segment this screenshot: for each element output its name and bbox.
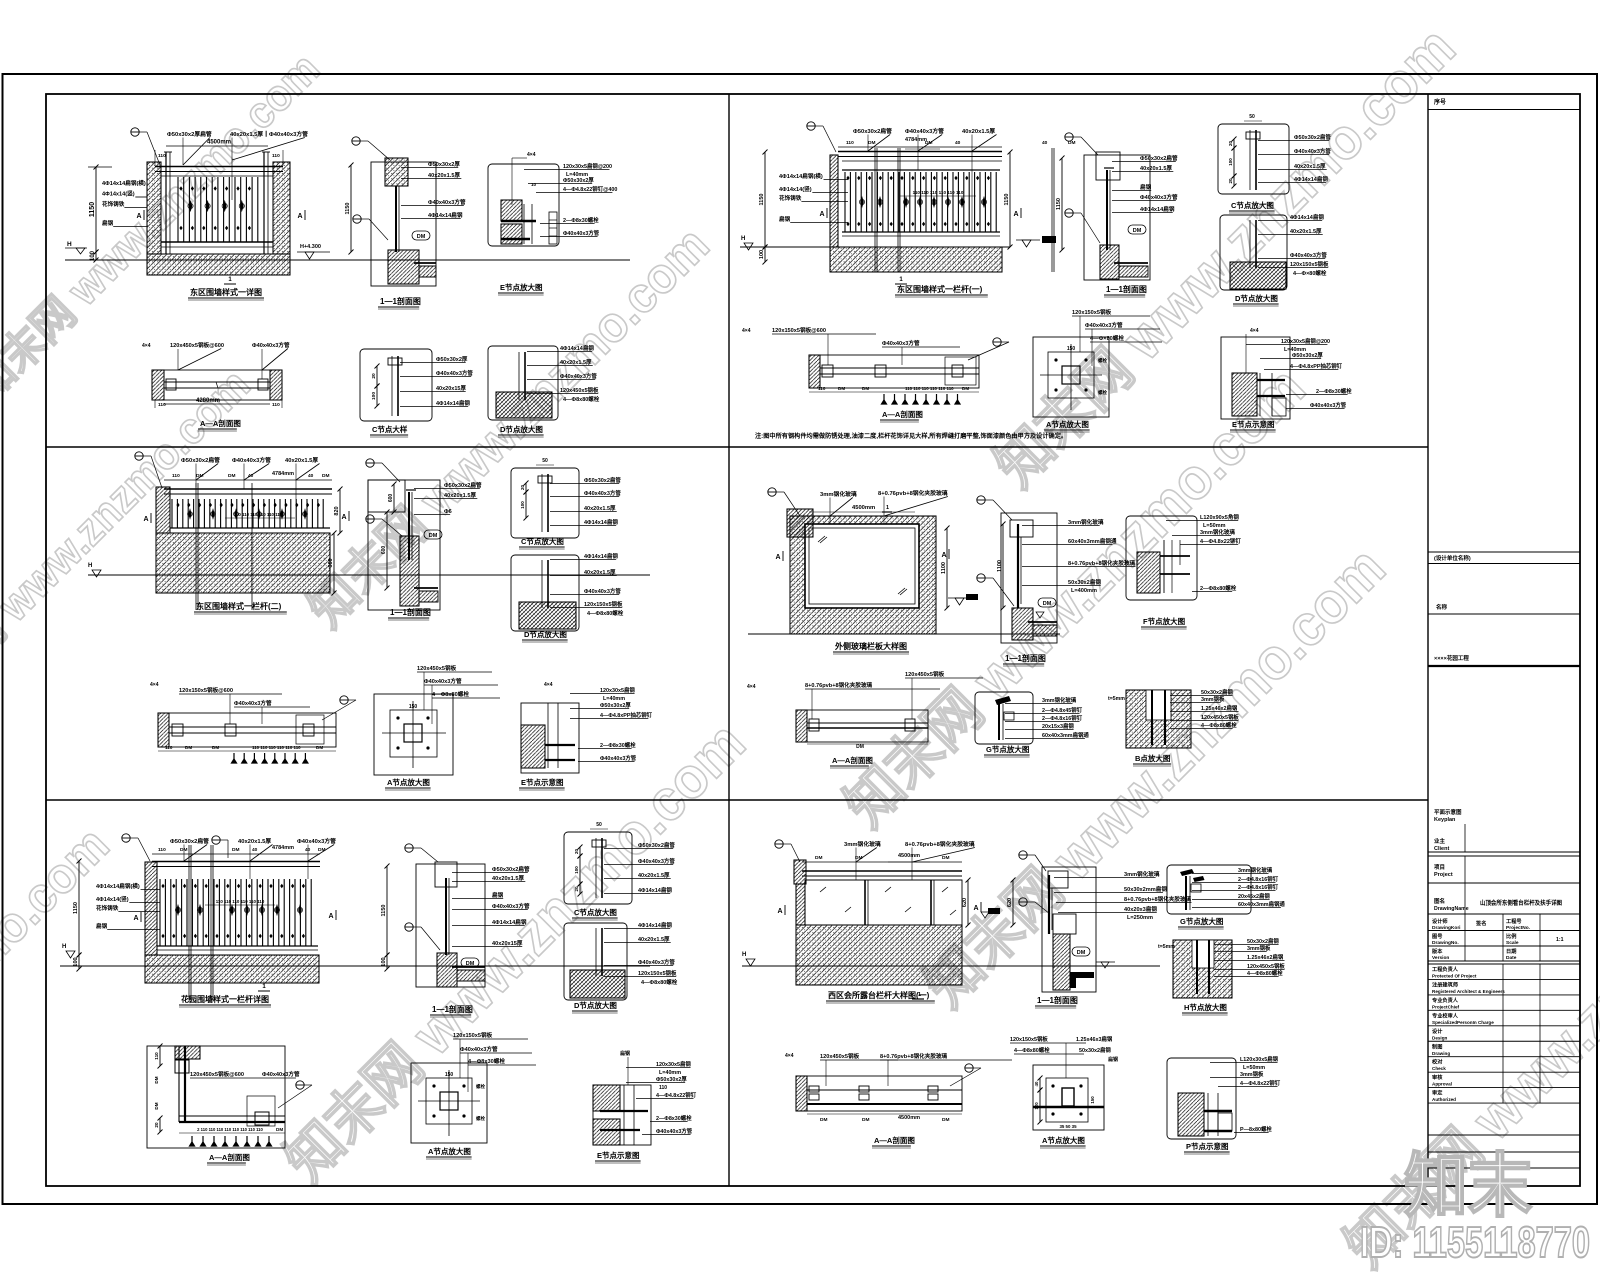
svg-text:100: 100 xyxy=(73,957,79,966)
svg-text:A: A xyxy=(941,552,946,559)
P2 section DM oval xyxy=(1128,225,1146,234)
P6 detail G box xyxy=(1167,865,1251,914)
P4 section top box xyxy=(1010,520,1033,537)
svg-text:120x150x5钢板@600: 120x150x5钢板@600 xyxy=(772,326,826,334)
P1 callout circle xyxy=(131,128,139,136)
P1 plan A-A strip xyxy=(152,370,282,400)
P3 plan hash marks xyxy=(232,753,308,763)
svg-text:60x40x3mm扁钢通: 60x40x3mm扁钢通 xyxy=(1068,537,1117,545)
svg-text:20: 20 xyxy=(371,373,377,379)
svg-text:4Φ14x14扁钢(横): 4Φ14x14扁钢(横) xyxy=(779,172,823,180)
P3 top rail xyxy=(164,488,332,490)
P1 baluster small dots lower xyxy=(179,226,182,230)
P1 section callout mid xyxy=(353,215,361,223)
svg-text:Φ50x30x2厚: Φ50x30x2厚 xyxy=(1292,351,1323,359)
P2 baluster small dots upper xyxy=(846,176,849,180)
svg-text:60x40x3mm扁钢通: 60x40x3mm扁钢通 xyxy=(1238,900,1285,908)
P4 section bottom hatch xyxy=(1012,608,1033,640)
P3 detail C box xyxy=(511,468,579,538)
P5 corner plan vertical bar xyxy=(178,1046,180,1122)
svg-text:3mm钢化玻璃: 3mm钢化玻璃 xyxy=(820,490,857,498)
P5 section 1-1 body xyxy=(416,864,485,987)
P5 detail D box xyxy=(564,923,627,1000)
P5 corner plan dashed box xyxy=(247,1096,275,1126)
svg-text:Φ40x40x3方管: Φ40x40x3方管 xyxy=(252,341,290,349)
P1 balusters xyxy=(178,177,258,242)
svg-text:120x450x5钢板: 120x450x5钢板 xyxy=(820,1052,860,1060)
P5 detail C box xyxy=(564,832,632,904)
P5 section top box xyxy=(435,862,457,887)
svg-text:1.25x46x3扁钢: 1.25x46x3扁钢 xyxy=(1076,1035,1113,1043)
P5 corner plan left dims xyxy=(159,1046,161,1066)
P3 detail C dim 50 xyxy=(536,464,554,466)
svg-text:A: A xyxy=(328,913,333,920)
P2 balusters xyxy=(845,172,996,232)
svg-text:40x20x1.5厚: 40x20x1.5厚 xyxy=(560,358,592,366)
svg-text:110: 110 xyxy=(846,140,854,146)
P3 detail C post xyxy=(541,474,543,532)
svg-text:××××花园工程: ××××花园工程 xyxy=(1434,654,1469,662)
svg-text:120x150x5钢板: 120x150x5钢板 xyxy=(1010,1035,1048,1043)
svg-text:扁钢: 扁钢 xyxy=(492,891,504,899)
svg-text:Client: Client xyxy=(1434,846,1449,852)
P4 ground line xyxy=(748,633,1060,635)
svg-text:A—A剖面图: A—A剖面图 xyxy=(832,755,873,765)
P3 section 1-1 body xyxy=(368,480,440,610)
svg-text:专业校审人: 专业校审人 xyxy=(1432,1011,1459,1019)
svg-text:C节点放大图: C节点放大图 xyxy=(574,907,617,917)
svg-text:4—Φ8x80螺栓: 4—Φ8x80螺栓 xyxy=(1014,1046,1050,1054)
P6 detail P hatch xyxy=(1178,1093,1204,1136)
svg-text:Φ40x40x3方管: Φ40x40x3方管 xyxy=(1290,251,1327,259)
P3 ground line xyxy=(88,574,650,576)
svg-text:校对: 校对 xyxy=(1432,1058,1443,1066)
svg-text:D节点放大图: D节点放大图 xyxy=(524,629,567,639)
svg-text:4784mm: 4784mm xyxy=(272,471,294,477)
svg-text:50: 50 xyxy=(542,458,548,464)
P2 callout circle xyxy=(807,122,815,130)
svg-text:Φ40x40x3方管: Φ40x40x3方管 xyxy=(563,229,600,237)
svg-text:110: 110 xyxy=(158,153,166,159)
svg-text:Φ40x40x3方管: Φ40x40x3方管 xyxy=(1310,401,1347,409)
svg-text:100: 100 xyxy=(574,866,579,874)
title block approval row 2 xyxy=(1428,994,1580,996)
P6 section top box xyxy=(1048,871,1068,888)
P2 detail C box xyxy=(1218,124,1289,194)
svg-text:A: A xyxy=(973,905,978,912)
svg-text:4—Φ4.8x22铆钉: 4—Φ4.8x22铆钉 xyxy=(656,1091,697,1099)
svg-text:2—Φ8x80螺栓: 2—Φ8x80螺栓 xyxy=(1200,584,1237,592)
svg-text:4Φ14x14扁钢: 4Φ14x14扁钢 xyxy=(436,399,470,407)
P1 railing right post xyxy=(263,152,265,254)
P2 section dim 1150 xyxy=(1061,158,1063,250)
P6 section DM oval xyxy=(1072,947,1090,956)
svg-text:120x150x5钢板: 120x150x5钢板 xyxy=(453,1031,493,1039)
P2 detail D post xyxy=(1249,220,1251,268)
svg-text:工程号: 工程号 xyxy=(1506,917,1522,925)
svg-text:8+0.76pvb+8钢化夹胶玻璃: 8+0.76pvb+8钢化夹胶玻璃 xyxy=(878,489,948,497)
svg-text:50x30x2扁钢: 50x30x2扁钢 xyxy=(1079,1046,1111,1054)
svg-text:A: A xyxy=(136,213,141,220)
svg-text:4—Φ8x30螺栓: 4—Φ8x30螺栓 xyxy=(468,1057,505,1065)
svg-text:620: 620 xyxy=(962,898,968,907)
svg-text:1150: 1150 xyxy=(73,902,79,914)
P5 section cut lines xyxy=(188,845,190,1000)
P5 elevation hatched left column xyxy=(145,862,157,955)
svg-text:扁钢: 扁钢 xyxy=(619,1050,630,1057)
P4 section dim 1100 xyxy=(1002,524,1004,608)
svg-text:120x450x5钢板@600: 120x450x5钢板@600 xyxy=(170,341,224,349)
svg-text:110: 110 xyxy=(659,1085,667,1091)
svg-text:A: A xyxy=(341,514,346,521)
P3 section handrail box xyxy=(368,480,405,512)
P6 glass ticks xyxy=(820,887,826,892)
svg-text:设计师: 设计师 xyxy=(1432,917,1448,925)
P5 callouts xyxy=(122,834,130,842)
P5 detail C dims xyxy=(579,847,581,856)
svg-text:DM: DM xyxy=(1133,228,1142,234)
P6 detail P bars xyxy=(1204,1110,1232,1112)
svg-text:40x20x1.5厚: 40x20x1.5厚 xyxy=(1140,164,1172,172)
svg-text:ID: 1155118770: ID: 1155118770 xyxy=(1360,1218,1590,1267)
title block approval row 4 xyxy=(1428,1025,1580,1027)
svg-text:Φ40x40x3方管: Φ40x40x3方管 xyxy=(436,369,473,377)
svg-text:600: 600 xyxy=(381,546,387,555)
svg-text:审核: 审核 xyxy=(1432,1073,1443,1081)
title block design firm row xyxy=(1428,563,1580,565)
svg-text:600: 600 xyxy=(328,558,334,567)
P5 elevation hatched slab xyxy=(145,955,319,983)
P2 bottom rail xyxy=(842,231,1000,233)
svg-text:Drawing: Drawing xyxy=(1432,1051,1450,1056)
svg-text:A—A剖面图: A—A剖面图 xyxy=(200,418,241,428)
svg-text:DM: DM xyxy=(185,745,192,750)
svg-text:DM: DM xyxy=(429,533,438,539)
svg-text:40x20x1.5厚: 40x20x1.5厚 xyxy=(285,456,318,464)
P6 ground line xyxy=(742,965,1160,967)
svg-text:L=40mm: L=40mm xyxy=(659,1070,681,1076)
svg-text:4Φ14x14扁钢: 4Φ14x14扁钢 xyxy=(638,886,672,894)
P6 hatched wall xyxy=(796,925,962,985)
P3 detail D post xyxy=(541,560,543,608)
P2 plan A-A strip xyxy=(809,355,979,388)
svg-text:50x30x2扁钢: 50x30x2扁钢 xyxy=(1068,578,1101,586)
svg-text:4—Φ4.8x22铆钉: 4—Φ4.8x22铆钉 xyxy=(1240,1079,1281,1087)
P1 detail Cm dims xyxy=(376,366,378,386)
svg-text:DM: DM xyxy=(232,847,239,853)
P6 elevation left jamb xyxy=(796,884,805,925)
svg-text:4Φ14x14扁钢(横): 4Φ14x14扁钢(横) xyxy=(102,179,146,187)
P3 section hatch column xyxy=(400,536,419,606)
P3 section post xyxy=(408,492,410,560)
svg-text:1:1: 1:1 xyxy=(1556,937,1564,943)
title block line above project xyxy=(1428,851,1580,853)
P2 mid rail xyxy=(842,169,1000,171)
title block bottom boxes xyxy=(1428,1134,1580,1136)
svg-text:110 110 110 110 110 110: 110 110 110 110 110 110 xyxy=(913,190,964,195)
svg-text:L120x30x5扁钢: L120x30x5扁钢 xyxy=(1240,1055,1279,1063)
svg-text:40: 40 xyxy=(1042,140,1048,146)
svg-text:B点放大图: B点放大图 xyxy=(1135,753,1171,763)
svg-text:扁钢: 扁钢 xyxy=(96,922,108,930)
P5 section dims xyxy=(386,866,388,955)
svg-text:4Φ14x14扁钢: 4Φ14x14扁钢 xyxy=(638,921,672,929)
svg-text:Φ40x40x3方管: Φ40x40x3方管 xyxy=(600,754,637,762)
svg-text:110: 110 xyxy=(158,847,166,853)
svg-text:4Φ14x14(竖): 4Φ14x14(竖) xyxy=(96,895,129,903)
P5 corner plan big box xyxy=(147,1046,285,1148)
P2 baluster ornaments xyxy=(860,196,864,208)
P2 top dim row xyxy=(838,146,1002,148)
svg-text:620: 620 xyxy=(1007,898,1013,907)
svg-text:C节点大样: C节点大样 xyxy=(372,424,408,434)
P2 detail B plan cross xyxy=(1048,352,1094,398)
svg-text:20: 20 xyxy=(1228,141,1233,147)
svg-text:签名: 签名 xyxy=(1475,919,1486,927)
svg-text:日期: 日期 xyxy=(1506,947,1516,955)
svg-text:L=40mm: L=40mm xyxy=(603,696,625,702)
P4 dim 1100 xyxy=(946,528,948,608)
svg-text:P节点示意图: P节点示意图 xyxy=(1186,1141,1229,1151)
svg-text:A节点放大图: A节点放大图 xyxy=(1042,1135,1085,1145)
svg-text:H节点放大图: H节点放大图 xyxy=(1184,1002,1227,1012)
svg-text:150: 150 xyxy=(1067,346,1076,352)
svg-text:4×4: 4×4 xyxy=(527,152,536,158)
svg-text:40x20x1.5厚: 40x20x1.5厚 xyxy=(638,871,670,879)
svg-text:1—1剖面图: 1—1剖面图 xyxy=(1037,995,1078,1005)
P2 detail E box xyxy=(1221,337,1290,419)
svg-text:F节点放大图: F节点放大图 xyxy=(1143,616,1186,626)
svg-text:2—Φ4.8x16铆钉: 2—Φ4.8x16铆钉 xyxy=(1238,883,1279,891)
P6 glass panels xyxy=(805,880,962,925)
svg-text:DrawingName: DrawingName xyxy=(1434,906,1469,912)
svg-text:DM: DM xyxy=(815,855,822,861)
svg-text:3mm钢板: 3mm钢板 xyxy=(1201,695,1225,703)
svg-text:扁钢: 扁钢 xyxy=(1140,183,1152,191)
P2 detail E hatch wall xyxy=(1232,373,1257,416)
svg-text:Φ40x40x3方管: Φ40x40x3方管 xyxy=(905,127,944,135)
P3 detail E bars xyxy=(545,744,575,746)
svg-text:4×4: 4×4 xyxy=(742,328,751,334)
svg-text:40: 40 xyxy=(955,140,961,146)
svg-text:螺栓: 螺栓 xyxy=(476,1115,485,1122)
svg-text:50x30x2扁钢: 50x30x2扁钢 xyxy=(1201,688,1233,696)
P5 mid-bottom rail xyxy=(157,945,318,947)
svg-text:4—Φ4.8xPP抽芯铆钉: 4—Φ4.8xPP抽芯铆钉 xyxy=(1290,362,1343,370)
P4 detail F box xyxy=(1126,516,1197,600)
P3 section dims xyxy=(393,484,395,512)
title block approval row 9 xyxy=(1428,1102,1580,1104)
svg-text:E节点示意图: E节点示意图 xyxy=(597,1150,640,1160)
svg-text:4Φ14x14(竖): 4Φ14x14(竖) xyxy=(102,190,135,198)
svg-text:4—Φ8x80螺栓: 4—Φ8x80螺栓 xyxy=(587,609,624,617)
svg-text:1—1剖面图: 1—1剖面图 xyxy=(432,1004,473,1014)
P6 detail H posts xyxy=(1196,940,1198,994)
svg-text:1100: 1100 xyxy=(941,562,947,574)
P4 top-left hatch box xyxy=(787,509,813,537)
svg-text:120x450x5钢板@600: 120x450x5钢板@600 xyxy=(190,1070,244,1078)
svg-text:40x20x1.5厚: 40x20x1.5厚 xyxy=(238,837,271,845)
P2 plan callout xyxy=(993,338,1001,346)
P1 section handrail box xyxy=(385,158,408,186)
svg-text:A—A剖面图: A—A剖面图 xyxy=(882,409,923,419)
svg-text:Φ50x30x2扁管: Φ50x30x2扁管 xyxy=(444,481,482,489)
P3 plan dashed box xyxy=(296,715,324,744)
panel divider horizontal 2 xyxy=(46,799,1428,801)
P1 section DM oval xyxy=(412,231,430,240)
P3 detail E box xyxy=(521,703,579,773)
P1 detail E box xyxy=(488,164,559,246)
svg-text:A: A xyxy=(133,915,138,922)
P6 section 1-1 body xyxy=(1042,867,1096,992)
svg-text:8+0.76pvb+8钢化夹胶玻璃: 8+0.76pvb+8钢化夹胶玻璃 xyxy=(880,1052,948,1060)
svg-text:40x20x1.5厚: 40x20x1.5厚 xyxy=(1294,162,1326,170)
svg-text:120x450x5钢板: 120x450x5钢板 xyxy=(560,386,599,394)
P5 corner plan horizontal bar xyxy=(179,1115,285,1117)
svg-text:图号: 图号 xyxy=(1432,932,1442,940)
P2 elevation hatched wall strip xyxy=(830,155,838,247)
svg-text:3mm钢化玻璃: 3mm钢化玻璃 xyxy=(1042,696,1077,704)
svg-text:H: H xyxy=(67,241,72,248)
svg-text:A—A剖面图: A—A剖面图 xyxy=(874,1135,915,1145)
svg-text:20: 20 xyxy=(520,485,525,491)
svg-text:H: H xyxy=(741,236,745,242)
P5 balusters xyxy=(160,879,311,946)
svg-text:Φ50x30x2扁管: Φ50x30x2扁管 xyxy=(492,865,530,873)
P1 section floor step xyxy=(419,266,436,277)
svg-text:120x150x5钢板: 120x150x5钢板 xyxy=(638,969,677,977)
svg-text:1150: 1150 xyxy=(759,194,765,206)
svg-text:150: 150 xyxy=(445,1072,454,1078)
P6 section L-step xyxy=(1070,972,1094,988)
svg-text:820: 820 xyxy=(334,506,340,515)
P5 section callouts xyxy=(405,844,413,852)
svg-text:DM: DM xyxy=(228,473,235,479)
P2 section callouts xyxy=(1065,133,1073,141)
P5 baluster small dots upper xyxy=(161,884,164,888)
svg-text:8+0.76pvb+8钢化夹胶玻璃: 8+0.76pvb+8钢化夹胶玻璃 xyxy=(905,840,975,848)
P4 level symbol xyxy=(955,598,964,605)
svg-text:图名: 图名 xyxy=(1434,897,1445,905)
svg-text:比例: 比例 xyxy=(1506,932,1516,940)
svg-text:4500mm: 4500mm xyxy=(898,1115,920,1121)
svg-text:100: 100 xyxy=(371,392,377,400)
svg-text:P—8x80螺栓: P—8x80螺栓 xyxy=(1240,1125,1272,1133)
svg-text:L=400mm: L=400mm xyxy=(1071,588,1097,594)
P2 plan dashed box xyxy=(945,357,976,385)
svg-text:100: 100 xyxy=(90,250,96,261)
P6 detail P box xyxy=(1167,1058,1236,1139)
svg-text:版本: 版本 xyxy=(1431,947,1443,955)
P4 detail F steps xyxy=(1160,555,1190,557)
svg-text:3mm钢化玻璃: 3mm钢化玻璃 xyxy=(1238,866,1273,874)
P5 corner plan callout xyxy=(296,1081,304,1089)
svg-text:扁钢: 扁钢 xyxy=(779,215,791,223)
P1 section post xyxy=(395,186,397,252)
svg-text:40x20x1.5厚: 40x20x1.5厚 xyxy=(962,127,995,135)
P4 detail H posts xyxy=(1151,690,1153,745)
svg-text:L=250mm: L=250mm xyxy=(1127,915,1153,921)
title block row grid verticals upper xyxy=(1464,914,1466,961)
P4 section floor step xyxy=(1033,625,1057,636)
P2 dim 1150 right xyxy=(1009,152,1011,247)
title block approval row 8 xyxy=(1428,1087,1580,1089)
svg-text:D节点放大图: D节点放大图 xyxy=(1235,293,1278,303)
svg-text:4×4: 4×4 xyxy=(785,1053,794,1059)
svg-text:DM: DM xyxy=(820,1117,827,1123)
svg-text:150: 150 xyxy=(1090,1096,1095,1104)
svg-text:Φ40x40x3方管: Φ40x40x3方管 xyxy=(638,958,675,966)
svg-text:Φ40x40x3方管: Φ40x40x3方管 xyxy=(424,677,462,685)
svg-text:120x30x5扁钢@200: 120x30x5扁钢@200 xyxy=(1281,337,1330,345)
svg-text:120x450x5钢板: 120x450x5钢板 xyxy=(1201,713,1239,721)
svg-text:1150: 1150 xyxy=(1004,194,1010,206)
svg-text:Φ50x30x2扁管: Φ50x30x2扁管 xyxy=(1294,133,1331,141)
P5 baluster ornaments xyxy=(176,904,180,916)
svg-text:东区围墙样式一栏杆(二): 东区围墙样式一栏杆(二) xyxy=(196,601,282,611)
P2 plan hash marks xyxy=(882,394,961,404)
P2 detail D hatch xyxy=(1230,262,1286,289)
svg-text:Φ40x40x3方管: Φ40x40x3方管 xyxy=(428,198,466,206)
svg-text:20: 20 xyxy=(154,1122,159,1128)
svg-text:Scale: Scale xyxy=(1506,940,1519,946)
P6 detail Aplate dims xyxy=(1039,1078,1041,1090)
svg-text:4—Φ8x80螺栓: 4—Φ8x80螺栓 xyxy=(1247,969,1283,977)
svg-text:600: 600 xyxy=(388,494,394,503)
svg-text:DM: DM xyxy=(962,386,969,391)
svg-text:20x15x3扁钢: 20x15x3扁钢 xyxy=(1042,722,1074,730)
title block project row thick line xyxy=(1428,665,1580,667)
svg-text:150: 150 xyxy=(409,704,418,710)
svg-text:1—1剖面图: 1—1剖面图 xyxy=(1005,653,1046,663)
svg-text:山顶会所东侧看台栏杆及扶手详图: 山顶会所东侧看台栏杆及扶手详图 xyxy=(1480,899,1562,907)
svg-text:120: 120 xyxy=(1034,1102,1039,1110)
svg-text:100: 100 xyxy=(520,501,525,509)
svg-text:1—1剖面图: 1—1剖面图 xyxy=(1106,284,1147,294)
svg-text:项目: 项目 xyxy=(1434,863,1445,871)
P6 section callouts xyxy=(1019,851,1027,859)
P3 elevation hatched wall xyxy=(156,533,330,593)
svg-text:G节点放大图: G节点放大图 xyxy=(986,744,1030,754)
P2 plan dim row xyxy=(809,391,979,393)
svg-text:Φ40x40x3方管: Φ40x40x3方管 xyxy=(656,1127,693,1135)
svg-text:平面示意图: 平面示意图 xyxy=(1434,808,1462,816)
P3 detail C dims xyxy=(525,483,527,492)
svg-text:DM: DM xyxy=(942,855,949,861)
svg-text:DM: DM xyxy=(316,745,323,750)
svg-text:110: 110 xyxy=(818,386,826,391)
svg-text:3mm钢化玻璃: 3mm钢化玻璃 xyxy=(1068,518,1104,526)
svg-text:1: 1 xyxy=(918,992,921,998)
svg-text:40x20x3扁钢: 40x20x3扁钢 xyxy=(1124,905,1157,913)
svg-text:审定: 审定 xyxy=(1432,1089,1443,1097)
P3 baluster small dots xyxy=(176,503,179,507)
svg-text:DM: DM xyxy=(942,1117,949,1123)
svg-text:4×4: 4×4 xyxy=(142,343,151,349)
svg-text:20: 20 xyxy=(574,886,579,892)
svg-text:40x20x15厚: 40x20x15厚 xyxy=(492,939,523,947)
svg-text:花饰铸铁: 花饰铸铁 xyxy=(102,200,125,208)
P5 section floor step xyxy=(457,970,485,981)
P6 detail G clamp xyxy=(1180,869,1194,876)
svg-text:Φ40x40x3方管: Φ40x40x3方管 xyxy=(584,587,621,595)
svg-text:A: A xyxy=(1013,211,1018,218)
P2 baluster small dots lower xyxy=(846,222,849,226)
P1 railing bottom rail xyxy=(161,241,273,243)
svg-text:G节点放大图: G节点放大图 xyxy=(1180,916,1224,926)
svg-text:DM: DM xyxy=(276,1127,283,1132)
svg-text:DM: DM xyxy=(868,140,875,146)
